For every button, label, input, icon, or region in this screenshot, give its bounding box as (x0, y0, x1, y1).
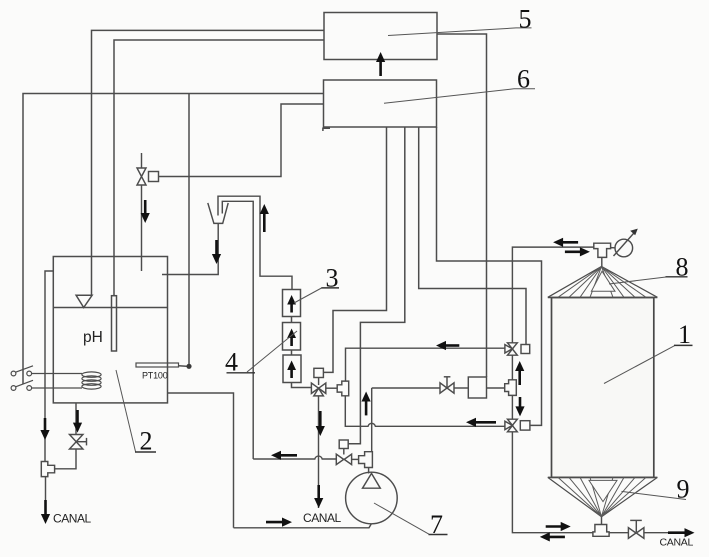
arrow left on tank bottom pipe (540, 532, 565, 541)
label 2 underline (135, 451, 156, 453)
wire: box5 left output 2 to pH electrode (114, 40, 324, 296)
controller box 5 (324, 13, 437, 60)
label 8 underline (666, 276, 688, 278)
PT100 probe tail wire (179, 365, 187, 367)
top nozzle fitting (594, 243, 611, 257)
manifold pipe with hop over canal drop (253, 456, 336, 459)
tank 1 top cone (548, 267, 658, 298)
arrow up from box6 to box5 (376, 52, 385, 76)
PT100 terminal dot (186, 364, 191, 369)
pump 7 casing (346, 472, 398, 524)
svg-text:pH: pH (83, 329, 103, 346)
pipe below fitting to canal (45, 477, 47, 500)
tank 2 body (53, 257, 167, 403)
pipe: dosing valve into tank 2 (141, 185, 143, 271)
pipe from box C bottom to 3-way valve A (292, 383, 312, 388)
column riser pipe upper (top corner to valve C) (512, 247, 593, 343)
PT100 probe bar (136, 363, 179, 367)
arrow down above drain valve (73, 410, 82, 433)
pipe hand valve H2 to right canal (644, 532, 686, 534)
arrow down below dosing valve (141, 200, 150, 223)
branch pipe: right column valve to fitting A drop (346, 348, 505, 381)
fitting A (tee by 3-way valve A) (337, 381, 349, 396)
funnel cup (208, 203, 228, 224)
fitting B (pump inlet tee) (359, 452, 373, 468)
column riser pipe fitting C to valve D (511, 395, 513, 419)
svg-text:7: 7 (430, 510, 443, 539)
riser pipe outer (rotameters to funnel) (218, 196, 292, 289)
arrow up between valve C and fitting C (515, 361, 524, 385)
instrument box (from controller 5) (468, 377, 486, 398)
bottom nozzle fitting (593, 525, 609, 537)
pump 7 inlet triangle (363, 473, 381, 488)
leader line label 9 (622, 491, 687, 499)
riser pipe inner (manifold to funnel) (222, 201, 253, 459)
svg-text:CANAL: CANAL (53, 512, 92, 526)
svg-text:1: 1 (678, 320, 691, 349)
arrow right on tank top pipe (565, 247, 590, 256)
leader line label 2 (116, 370, 136, 452)
label 3 underline (321, 287, 339, 289)
svg-text:6: 6 (517, 65, 530, 94)
arrow down to canal (left) (41, 500, 50, 524)
wire: box6 drop 3 to right column valve actuator top (419, 127, 526, 344)
svg-text:2: 2 (140, 427, 153, 456)
pipe tank 2 right wall to down leg (168, 393, 234, 528)
fitting C (column tee) (505, 380, 517, 396)
pipe bottom run to pump suction (234, 524, 372, 528)
rotameter box B (283, 323, 301, 351)
pipe drain valve to canal fitting (55, 449, 76, 469)
tank 1 top flange line (548, 297, 658, 299)
pipe bottom nozzle to hand valve H2 (609, 532, 628, 534)
arrow down on middle canal pipe (lower) (314, 485, 323, 508)
pressure gauge dial (615, 239, 633, 257)
arrow up beside riser pipe (260, 204, 269, 232)
arrow down on overflow pipe (40, 418, 49, 440)
wire: box5 right output down to instrument box (437, 34, 487, 377)
pipe: 3-way valve B to fitting B (352, 458, 359, 460)
gauge needle (614, 231, 636, 256)
leader line label 3 (294, 288, 322, 303)
valve V1 dosing (vertical bowtie) (137, 168, 146, 185)
heater coil (82, 372, 101, 389)
arrow down between fitting C and valve D (515, 397, 524, 416)
3-way valve D (lower, vertical) (505, 419, 517, 432)
column riser pipe valve C to fitting C (511, 355, 513, 380)
wire: box6 drop 4 to right column lower valve actuator (437, 127, 542, 425)
arrow left on manifold pipe (271, 451, 297, 460)
funnel drain pipe into tank 2 (162, 223, 218, 274)
3-way valve C (upper, vertical) (505, 343, 517, 355)
rotameter box C (283, 355, 301, 383)
valve D actuator square (520, 421, 530, 430)
leader line label 5 (388, 28, 532, 36)
gauge connection stub (611, 247, 615, 249)
bottom cone inner triangle (589, 480, 617, 501)
arrow left on upper branch pipe (436, 341, 459, 350)
gauge needle arrowhead (630, 229, 638, 236)
wire: box6 drop 2 to 3-way valve B actuator (348, 127, 405, 444)
tank 1 body (552, 298, 654, 478)
leader line label 1 (604, 346, 675, 384)
hand valve H1 (bowtie with T handle) (440, 383, 454, 393)
arrow left on tank top pipe (553, 238, 578, 247)
pump riser pipe (fitting B top to discharge line) (371, 388, 373, 452)
column riser pipe valve D to bottom corner (512, 432, 593, 533)
3-way valve A actuator stem (318, 378, 320, 386)
leader line label 4 (247, 331, 297, 372)
valve C actuator square (521, 345, 530, 354)
svg-text:CANAL: CANAL (303, 511, 342, 525)
3-way valve B body (336, 454, 351, 464)
level indicator triangle (76, 295, 92, 307)
overflow pipe from tank left wall (45, 271, 53, 462)
canal fitting (left) (41, 462, 54, 477)
svg-text:PT100: PT100 (142, 371, 168, 381)
arrow down on middle canal pipe (upper) (316, 411, 325, 436)
stub between box A and B (291, 317, 293, 323)
pipe stub above dosing valve (141, 153, 143, 168)
3-way valve B actuator square (339, 440, 348, 449)
top nozzle stem (601, 257, 603, 266)
3-way valve A actuator square (314, 368, 324, 377)
bottom nozzle stem (601, 517, 603, 525)
pipe: fitting B down to pump (368, 468, 370, 474)
drain valve handle (76, 441, 86, 443)
arrow up beside pump riser (362, 392, 371, 416)
control line valve V1 to box6 (159, 104, 324, 177)
tank 1 bottom flange line (548, 476, 658, 478)
leader line label 7 (374, 503, 429, 534)
hand valve H2 (bowtie with T handle) (628, 520, 644, 538)
top cone hatch lines (558, 267, 646, 298)
arrow up inside rotameter B (287, 329, 296, 347)
3-way valve A body (311, 383, 325, 396)
arrow right on pump suction bottom pipe (266, 518, 292, 527)
pipe: 3-way valve A bottom port to canal (middle) (318, 396, 320, 508)
pipe: hand valve to instrument box (454, 387, 468, 389)
switch contacts (two poles) (11, 366, 82, 391)
wire: box6 drop 1 to 3-way valve A actuator (324, 127, 387, 372)
drain valve (vertical bowtie with handle) (70, 435, 83, 450)
label 1 underline (674, 344, 693, 346)
svg-text:4: 4 (225, 348, 238, 377)
tank 2 liquid level line (53, 307, 167, 309)
branch pipe: fitting A bottom to lower column valve, hop over pump riser (345, 396, 505, 427)
bottom cone hatch lines (558, 477, 646, 516)
arrow down below funnel (212, 240, 221, 264)
leader line label 8 (609, 277, 666, 284)
pipe: pump riser to hand valve (372, 387, 440, 389)
3-way valve B actuator stem (343, 449, 345, 455)
arrow right at canal outlet (right) (668, 528, 695, 537)
svg-text:8: 8 (676, 253, 689, 282)
tank 2 drain pipe (75, 403, 77, 435)
leader line label 6 (384, 89, 535, 104)
controller box 6 (324, 80, 437, 127)
tank 1 bottom cone (548, 477, 658, 516)
wire: box6 left output to switch contacts (23, 94, 324, 385)
pipe: 3-way valve A right port to fitting A (326, 387, 337, 389)
wire: box6 bottom-left stub (323, 128, 330, 131)
pipe: instrument box to fitting C (487, 387, 505, 389)
arrow left on lower branch pipe (466, 418, 496, 427)
label 7 underline (429, 534, 448, 536)
arrow up inside rotameter A (287, 295, 296, 313)
wire: box5 left output 1 to tank level indicator (92, 30, 325, 295)
svg-text:3: 3 (326, 263, 339, 292)
wire: PT100 sensor line (188, 94, 190, 365)
svg-text:9: 9 (677, 475, 690, 504)
valve V1 actuator square (149, 172, 159, 182)
svg-text:5: 5 (519, 4, 532, 33)
svg-text:CANAL: CANAL (660, 537, 694, 549)
rotameter box A (283, 290, 301, 317)
top cone inner triangle (591, 271, 615, 291)
stub between box B and C (291, 350, 293, 355)
arrow right on tank bottom pipe (546, 522, 571, 531)
pH electrode (112, 296, 117, 351)
arrow up inside rotameter C (287, 361, 296, 379)
label 4 underline (227, 372, 256, 374)
